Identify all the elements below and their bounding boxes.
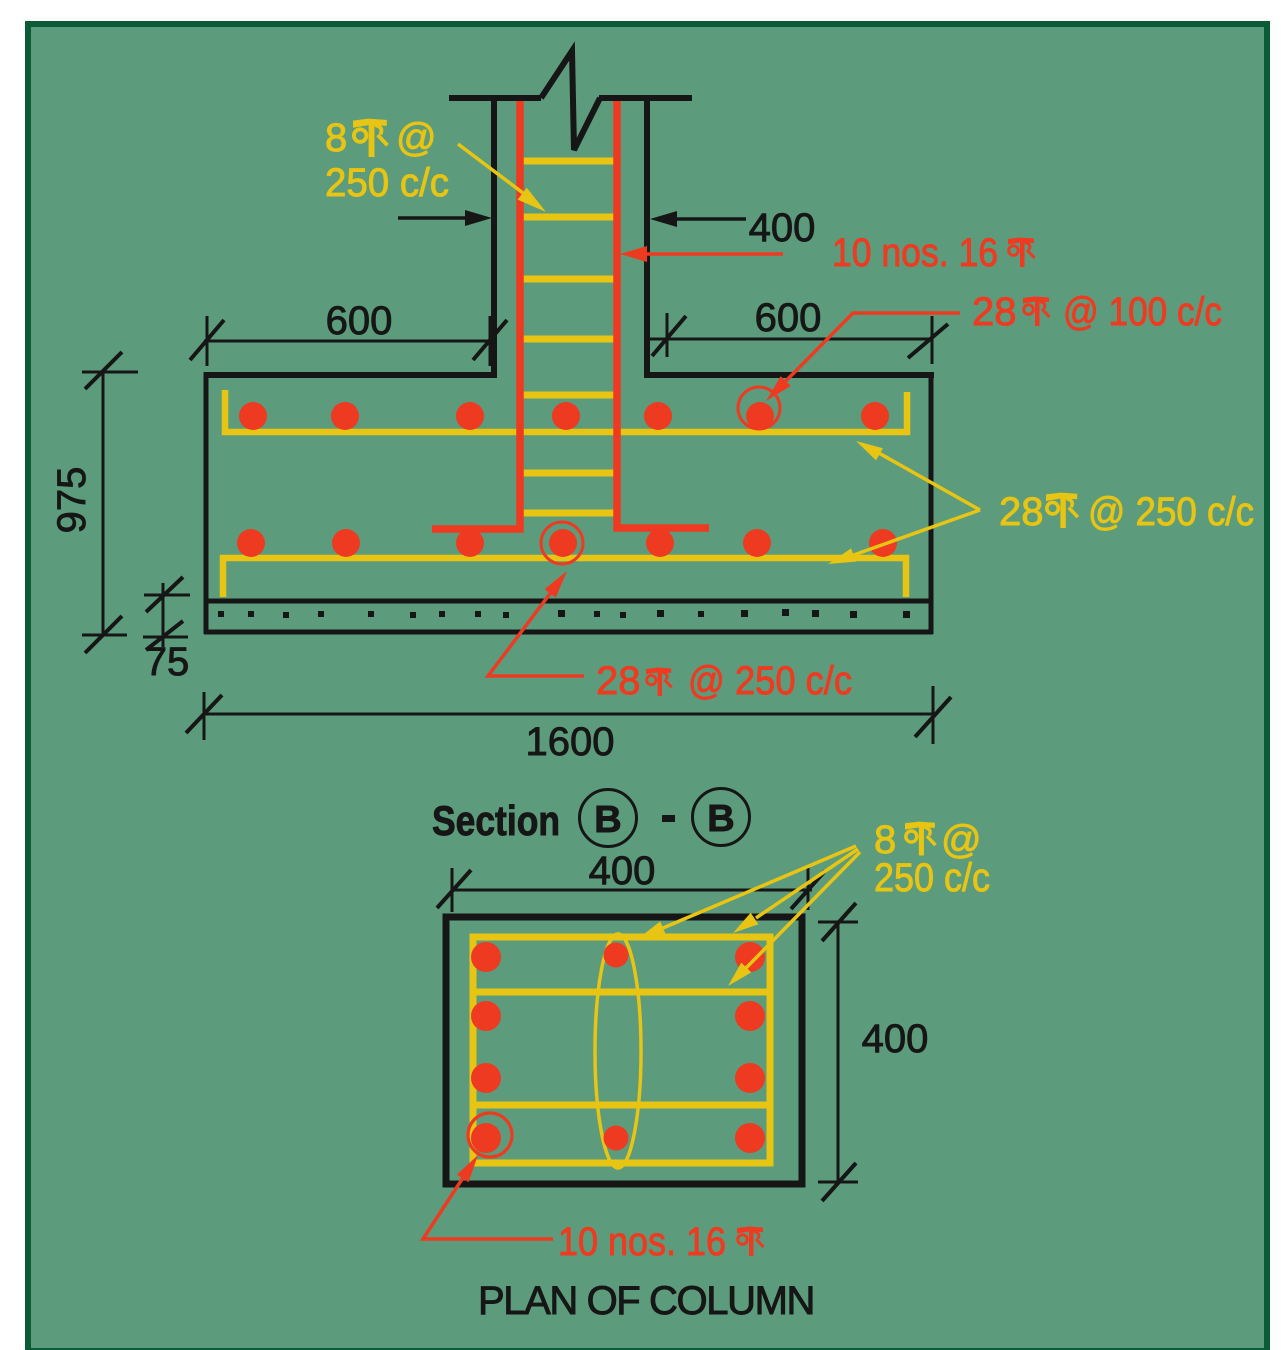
- bottom row footing main bars (dots): [237, 529, 897, 557]
- column top cut line right: [599, 95, 692, 101]
- dimension 600 left: line and ticks: [204, 316, 492, 366]
- dimension 75: line, crossbars, slashes: [143, 583, 190, 647]
- circle B (second): [693, 789, 750, 846]
- svg-text:400: 400: [862, 1017, 929, 1061]
- svg-text:600: 600: [326, 299, 393, 343]
- leader for 28@100 label: [774, 313, 960, 393]
- callout circle on corner bar: [468, 1113, 512, 1157]
- svg-text:10 nos. 16: 10 nos. 16: [832, 231, 998, 275]
- dimension 600 right: line and ticks: [644, 313, 933, 364]
- column stirrup ties (8 dia @ 250 c/c) ladder rungs: [517, 161, 620, 513]
- plan dimension 400 top: line, ticks: [452, 866, 812, 912]
- column outline (plan): [446, 917, 802, 1184]
- top row footing main bars (dots): [239, 402, 889, 430]
- svg-text:8: 8: [325, 116, 347, 160]
- footing side right: [929, 372, 934, 634]
- svg-text:28: 28: [999, 490, 1044, 534]
- top mat footing bar (28 dia @ 250 c/c) with end risers: [225, 390, 907, 432]
- leader for red 28@250 label: [488, 591, 584, 676]
- dimension 975: line, crossbars, slashes: [82, 371, 138, 635]
- column vertical bars (10 nos. 16 dia) with bottom bends: [432, 100, 709, 529]
- leader for 10 nos label: [642, 252, 783, 256]
- svg-text:400: 400: [589, 849, 656, 893]
- footing PCC strip top line: [204, 599, 933, 604]
- svg-text:B: B: [707, 798, 734, 840]
- leader for plan 10 nos label: [423, 1167, 553, 1239]
- svg-text:@: @: [396, 116, 437, 160]
- leader for 8 dia label: [458, 144, 535, 202]
- callout circle on top-row bar: [738, 387, 780, 429]
- column bars (plan dots): [471, 942, 765, 1153]
- column outline right: [644, 98, 650, 378]
- dash between circles: [662, 815, 675, 822]
- svg-text:B: B: [594, 799, 621, 841]
- dimension 400 arrows (column width): [398, 216, 470, 220]
- leaders for yellow 28@250 label: [877, 452, 980, 510]
- svg-text:75: 75: [145, 640, 190, 684]
- column outline left: [491, 98, 497, 378]
- svg-text:250 c/c: 250 c/c: [325, 161, 449, 205]
- inner tie line upper: [473, 989, 770, 996]
- svg-text:400: 400: [749, 206, 816, 250]
- svg-text:@ 100 c/c: @ 100 c/c: [1063, 290, 1222, 334]
- svg-text:1600: 1600: [526, 720, 615, 764]
- column top cut line left: [449, 95, 541, 101]
- leaders for plan yellow label: [663, 846, 856, 928]
- svg-text:975: 975: [50, 467, 94, 534]
- callout circle on bottom-row bar: [541, 522, 583, 564]
- dimension 1600: line, crossbars, slashes: [204, 686, 933, 744]
- svg-text:@ 250 c/c: @ 250 c/c: [1088, 490, 1254, 534]
- footing top shoulder right: [644, 372, 934, 378]
- svg-text:600: 600: [755, 296, 822, 340]
- svg-text:250 c/c: 250 c/c: [874, 856, 990, 900]
- stirrup tie rectangle (plan): [473, 937, 770, 1163]
- footing bottom line: [204, 630, 933, 635]
- plan dimension 400 right: line, crossbars, slashes: [818, 922, 858, 1182]
- footing top shoulder left: [204, 372, 497, 378]
- footing side left: [204, 372, 209, 634]
- column top break symbol: [541, 51, 600, 150]
- inner tie line lower: [473, 1102, 770, 1109]
- svg-text:@ 250 c/c: @ 250 c/c: [688, 659, 852, 703]
- bottom mat footing bar (28 dia @ 250 c/c) with down hooks: [223, 558, 906, 597]
- PCC strip dots: [218, 609, 910, 618]
- circle B (first): [580, 790, 637, 847]
- svg-text:28: 28: [972, 290, 1017, 334]
- tie loop ellipse: [595, 934, 641, 1168]
- svg-text:28: 28: [596, 659, 641, 703]
- svg-text:PLAN OF COLUMN: PLAN OF COLUMN: [478, 1279, 814, 1323]
- svg-text:10 nos. 16: 10 nos. 16: [558, 1220, 726, 1264]
- svg-text:Section: Section: [432, 797, 560, 844]
